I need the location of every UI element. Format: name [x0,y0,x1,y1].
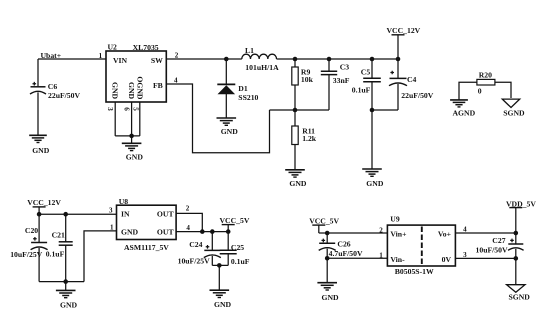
svg-text:C3: C3 [340,62,350,71]
wire U8 pin2 to output rail [176,213,202,231]
svg-text:0.1uF: 0.1uF [352,86,371,95]
wire D1 to ground [225,94,227,118]
ground GND (bottom-right input) [317,283,339,303]
svg-text:1: 1 [99,52,103,60]
svg-text:10uF/25V: 10uF/25V [178,256,210,265]
svg-text:101uH/1A: 101uH/1A [245,63,279,72]
svg-text:2: 2 [186,204,190,212]
capacitor C26 4.7uF/50V [319,233,363,258]
node Ubat+ label [41,51,62,60]
svg-text:3: 3 [109,206,113,214]
svg-text:GND: GND [322,293,340,302]
svg-text:0.1uF: 0.1uF [46,249,65,258]
svg-text:VIN: VIN [113,56,128,65]
wire down to ground [371,110,373,169]
wire Ubat+ down to C6 [37,59,39,86]
svg-text:U9: U9 [390,215,400,224]
svg-text:Vin+: Vin+ [390,230,406,239]
junction 0V / C27 / SGND [514,256,519,261]
svg-text:22uF/50V: 22uF/50V [401,91,433,100]
pin number 3 rotated [106,107,114,111]
pin number 4 (OUT) [186,224,190,232]
wire U2 pin6 down [131,102,133,136]
pin number 2 (OUT) [186,204,190,212]
ground GND (under U2) [122,143,144,161]
regulator U8 ASM1117_5V body [117,197,177,252]
svg-text:GND: GND [127,82,136,100]
svg-text:D1: D1 [238,84,248,93]
svg-text:B0505S-1W: B0505S-1W [395,267,434,276]
junction SW rail / D1 [224,57,229,62]
wire junction to ground [218,265,220,290]
svg-text:FB: FB [153,81,163,90]
ground GND (bottom-left) [56,290,78,309]
junction C24/C25 ground [217,263,222,268]
svg-text:OGND: OGND [136,76,145,100]
junction rail / R9 [293,57,298,62]
svg-text:4.7uF/50V: 4.7uF/50V [329,249,363,258]
svg-text:0V: 0V [442,255,452,264]
svg-text:VCC_12V: VCC_12V [27,198,61,207]
ground AGND [450,100,475,117]
svg-text:SGND: SGND [503,108,525,117]
ground SGND (triangle) [502,99,525,117]
svg-text:C5: C5 [361,67,371,76]
wire U9 Vin- to C26/GND [327,257,387,259]
capacitor C27 10uF/50V [476,233,524,258]
junction rail / C25 / VCC_5V [226,229,231,234]
pin number 1 (VIN) [99,52,103,60]
svg-text:Vo+: Vo+ [438,230,451,239]
pin number 1 (Vin-) [379,251,383,259]
svg-text:33nF: 33nF [333,76,350,85]
svg-text:2: 2 [379,226,383,234]
svg-text:OUT: OUT [157,228,175,237]
svg-text:GND: GND [366,179,384,188]
svg-text:5: 5 [131,107,139,111]
wire VCC_5V to U9 Vin+ [319,232,388,234]
svg-text:VCC_5V: VCC_5V [309,216,339,225]
wire junction down to SGND [515,258,517,284]
wire VCC rail to U8 IN [39,213,116,215]
capacitor C4 22uF/50V [389,59,434,110]
junction C5 bottom [370,108,375,113]
svg-text:1.2k: 1.2k [302,134,317,143]
pin number 2 (Vin+) [379,226,383,234]
wire L1 to VCC node [277,58,399,60]
svg-text:C20: C20 [25,226,38,235]
svg-text:C21: C21 [52,231,65,240]
pin number 4 (FB) [174,77,178,85]
capacitor C21 0.1uF [46,214,73,281]
svg-text:C25: C25 [231,243,244,252]
capacitor C3 33nF [321,59,350,110]
junction Vin- / C26 / ground [325,256,330,261]
svg-text:22uF/50V: 22uF/50V [48,91,80,100]
capacitor C25 0.1uF [220,232,250,267]
svg-text:U8: U8 [119,197,129,206]
svg-text:VCC_12V: VCC_12V [387,26,421,35]
resistor R20 0 [477,70,495,95]
svg-text:GND: GND [221,127,239,136]
ground GND (under D1) [217,118,239,136]
regulator U2 XL7035 body [106,43,166,102]
power VCC_12V (top) [387,26,421,59]
ground GND (under R11) [285,170,307,188]
capacitor C5 0.1uF [352,59,381,110]
capacitor C6 22uF/50V [30,82,80,100]
wire junction to D1 [225,59,227,84]
wire U2 SW to L1 [166,58,242,60]
svg-text:SGND: SGND [509,293,531,302]
junction FB node / R9 / R11 [293,108,298,113]
svg-text:C26: C26 [337,239,350,248]
pin number 2 (SW) [175,52,179,60]
isolated converter U9 B0505S-1W body [387,215,455,276]
wire bottom rail joining C20/C21/pin1 [39,281,84,283]
svg-text:IN: IN [121,210,130,219]
junction Vo+ / C27 / VDD_5V [514,231,519,236]
junction U2 ground pins [129,134,134,139]
svg-text:U2: U2 [108,43,118,52]
junction rail / C21 [63,212,68,217]
svg-text:C27: C27 [492,236,505,245]
svg-text:C4: C4 [407,75,417,84]
wire C5/C4 bottoms joined [372,109,398,111]
svg-text:GND: GND [60,300,78,309]
svg-text:GND: GND [214,300,232,309]
svg-text:C24: C24 [189,240,202,249]
wire joining C24/C25 bottoms [212,264,228,266]
svg-text:SS210: SS210 [238,93,258,102]
svg-text:10k: 10k [301,75,314,84]
wire R20 right to SGND [495,82,511,98]
wire junction down to ground [326,258,328,282]
svg-text:4: 4 [186,224,190,232]
svg-text:OUT: OUT [157,210,175,219]
junction VCC / C20 [37,212,42,217]
svg-text:4: 4 [463,225,467,233]
inductor L1 101uH/1A [242,46,279,72]
svg-text:1: 1 [110,224,114,232]
svg-text:L1: L1 [245,46,254,55]
wire joining U2 ground pins [115,135,140,137]
wire FB node horizontal run [270,109,330,111]
junction rail / C5 [370,57,375,62]
svg-text:ASM1117_5V: ASM1117_5V [124,243,169,252]
capacitor C24 10uF/25V [178,232,221,266]
capacitor C20 10uF/25V [10,214,47,281]
junction rail / C26 [325,231,330,236]
svg-text:GND: GND [126,153,144,162]
pin number 5 rotated [131,107,139,111]
svg-text:0.1uF: 0.1uF [231,257,250,266]
svg-text:GND: GND [111,82,120,100]
wire junction to ground [131,136,133,143]
wire U2 pin5 down [139,102,141,136]
junction rail / C24 [210,229,215,234]
pin number 3 (0V) [463,251,467,259]
junction bottom rail / GND [63,279,68,284]
wire Ubat+ rail to U2 VIN [38,58,106,60]
junction pin2/pin4 [200,229,205,234]
pin number 6 rotated [123,107,131,111]
svg-text:0: 0 [478,87,482,96]
svg-text:XL7035: XL7035 [133,43,159,52]
resistor R11 1.2k [292,110,317,170]
wire U2 FB pin path [166,84,269,153]
svg-text:3: 3 [106,107,114,111]
power VCC_5V (bottom-right) [309,216,339,233]
ground GND (under C24/C25) [210,290,232,309]
resistor R9 10k [292,59,314,110]
junction rail / C4 / VCC_12V [396,57,401,62]
ground SGND (triangle, bottom-right) [507,285,531,302]
ground GND (under C5/C4) [362,169,384,188]
svg-text:1: 1 [379,251,383,259]
ground GND (under C6) [29,135,50,155]
wire C6 to ground [37,92,39,135]
svg-text:10uF/50V: 10uF/50V [476,245,508,254]
power VDD_5V [506,199,536,233]
svg-text:AGND: AGND [453,108,476,117]
wire U8 pin4 output rail [176,231,228,233]
pin number 4 (Vo+) [463,225,467,233]
wire U9 Vo+ to VDD node [455,232,515,234]
svg-text:GND: GND [289,179,307,188]
power VCC_5V (bottom-left) [220,216,250,232]
wire U9 0V to SGND [455,257,515,259]
wire U2 pin3 down [114,102,116,136]
svg-text:10uF/25V: 10uF/25V [10,250,42,259]
power VCC_12V (bottom-left) [27,198,61,214]
pin number 1 (GND) [110,224,114,232]
svg-text:6: 6 [123,107,131,111]
junction rail / C3 [327,57,332,62]
svg-text:VCC_5V: VCC_5V [220,216,250,225]
pin number 3 (IN) [109,206,113,214]
svg-text:Vin-: Vin- [390,255,405,264]
svg-text:SW: SW [151,56,163,65]
diode D1 SS210 [217,84,258,102]
svg-text:GND: GND [121,228,139,237]
svg-text:GND: GND [32,146,50,155]
wire junction down to ground [65,282,67,291]
wire R20 left to AGND [459,82,477,100]
svg-text:R20: R20 [479,70,492,79]
wire U8 GND pin1 to bottom rail [84,231,117,282]
